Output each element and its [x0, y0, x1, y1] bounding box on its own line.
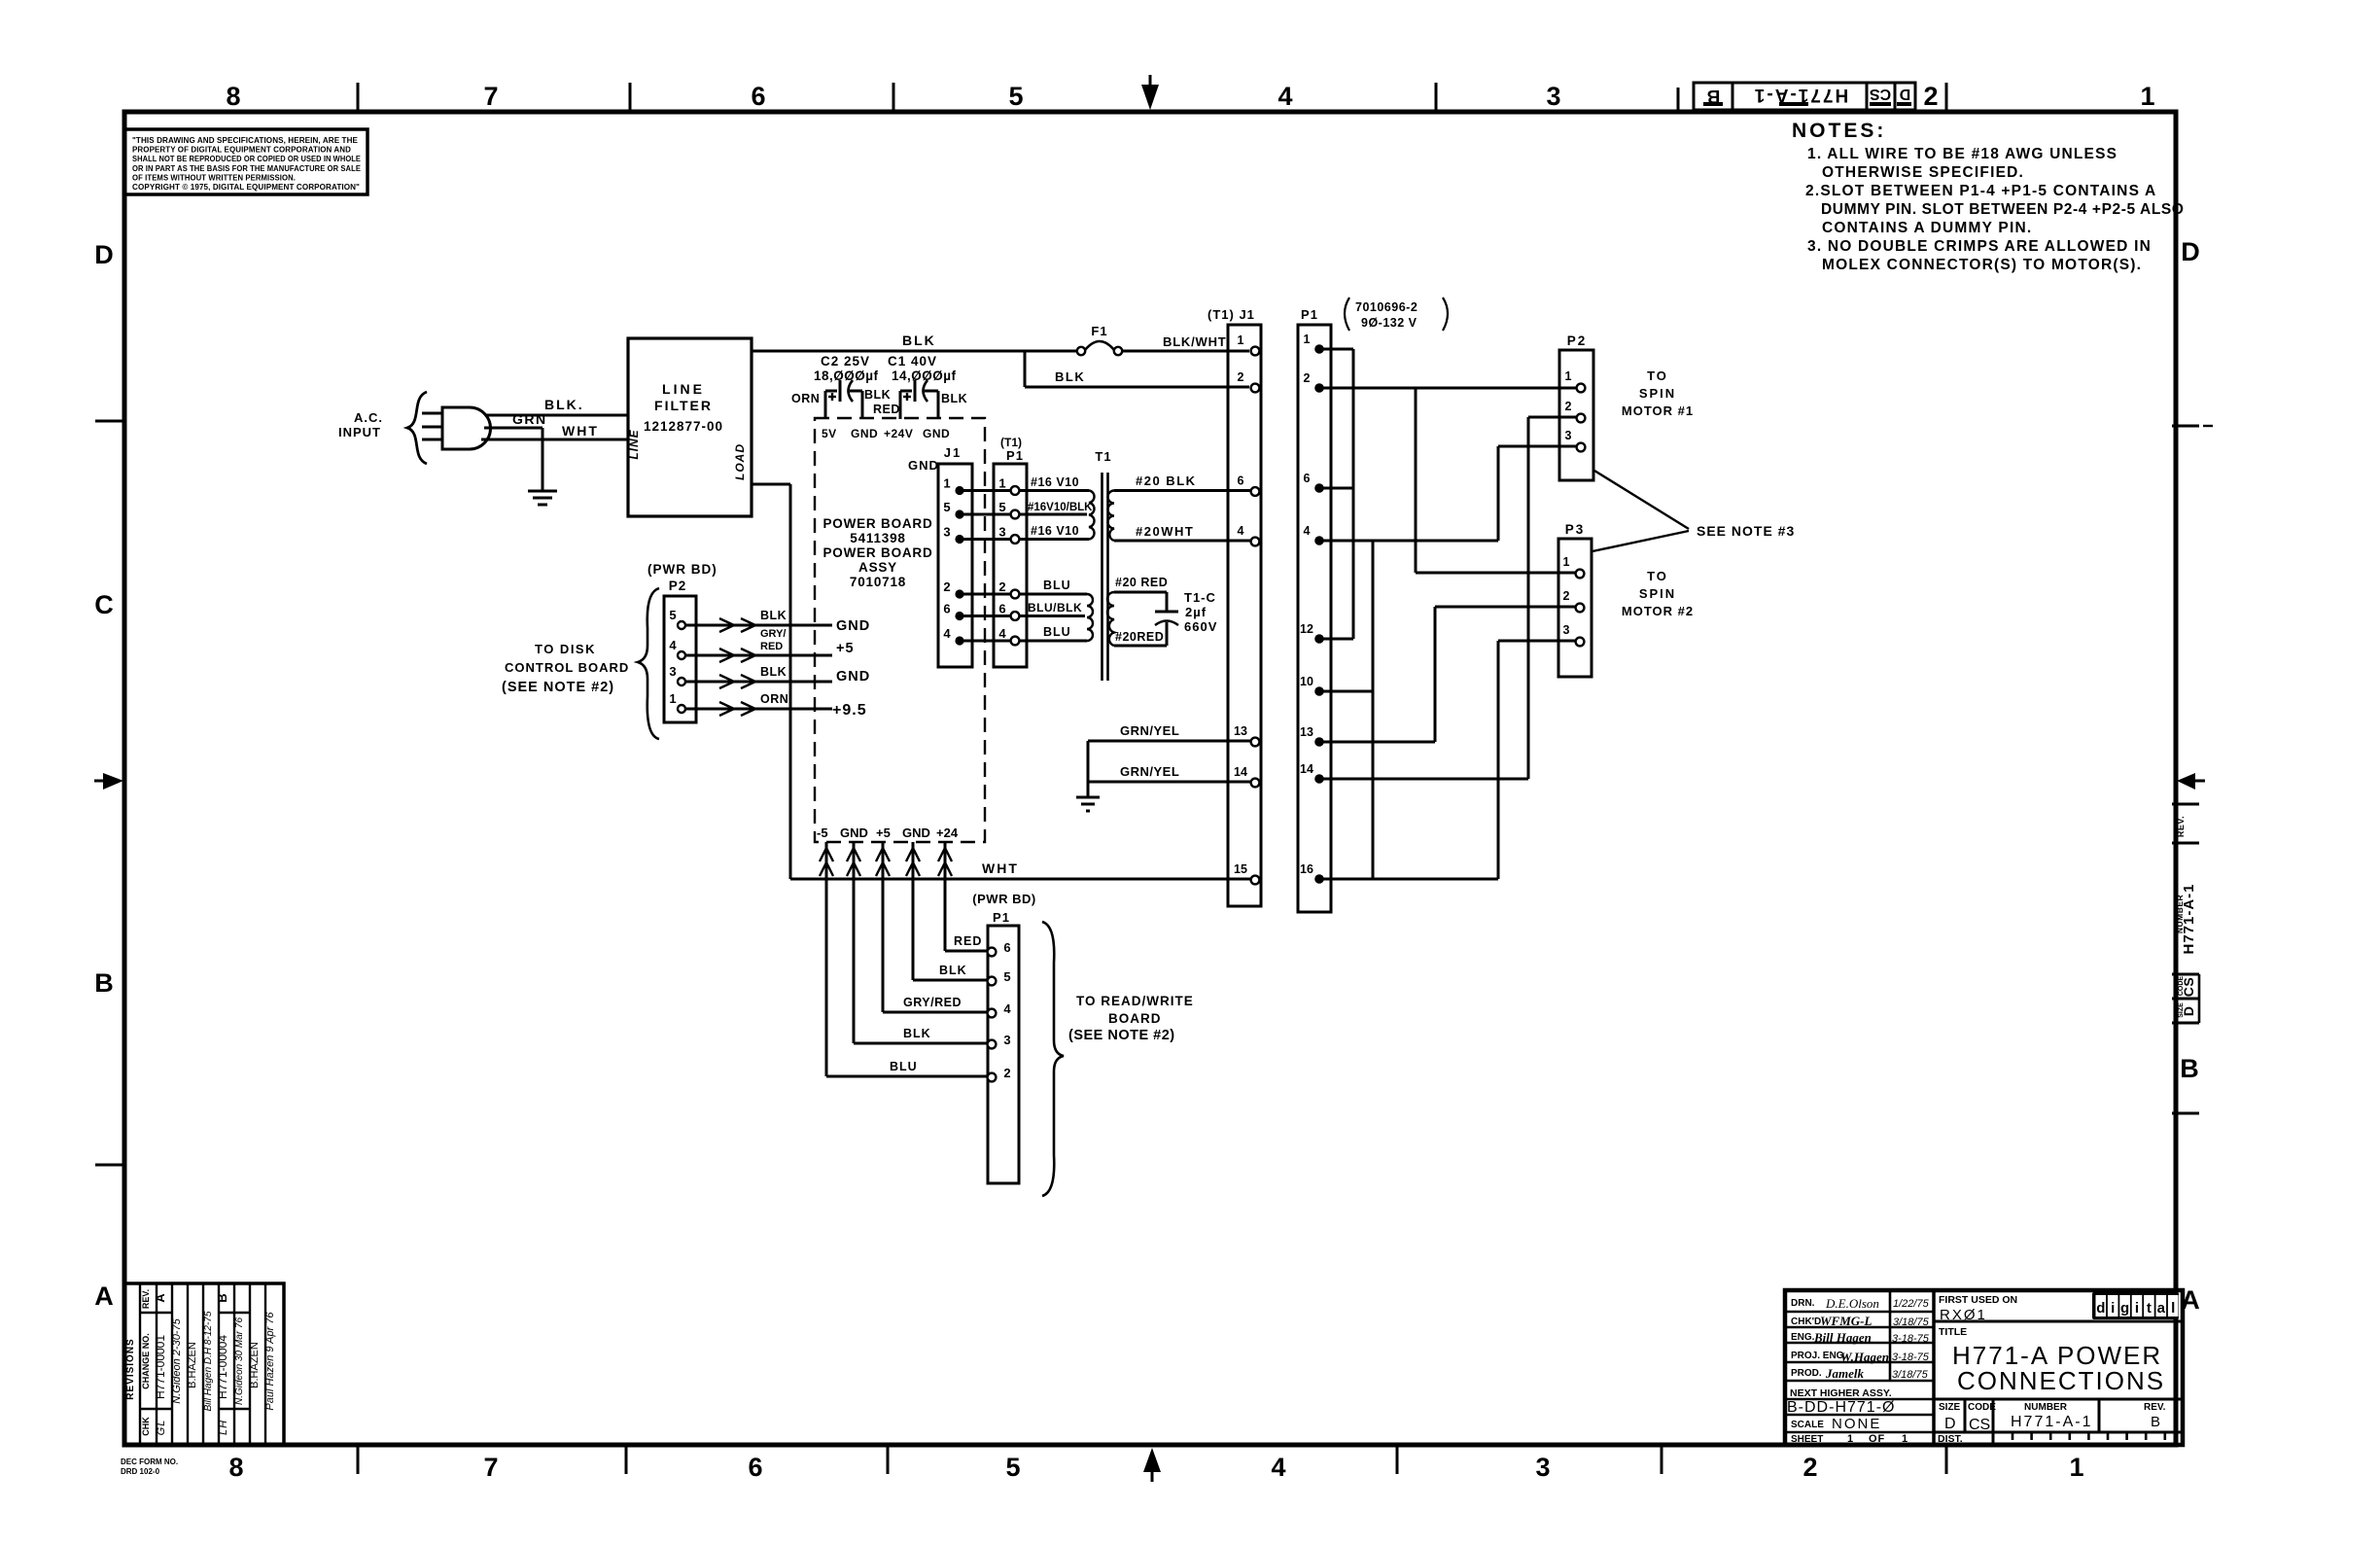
svg-text:3/18/75: 3/18/75 — [1893, 1317, 1930, 1328]
svg-text:3: 3 — [1565, 429, 1572, 442]
svg-text:3: 3 — [943, 525, 950, 540]
svg-text:P2: P2 — [1567, 334, 1588, 348]
svg-text:SPIN: SPIN — [1639, 586, 1676, 601]
svg-text:TITLE: TITLE — [1939, 1326, 1967, 1338]
svg-text:5: 5 — [1008, 82, 1023, 111]
svg-text:3. NO DOUBLE CRIMPS ARE ALLOWE: 3. NO DOUBLE CRIMPS ARE ALLOWED IN — [1807, 238, 2152, 255]
svg-text:LH: LH — [218, 1420, 229, 1435]
svg-text:BLK: BLK — [760, 665, 787, 679]
svg-text:TO: TO — [1647, 569, 1668, 583]
svg-text:14: 14 — [1234, 765, 1247, 779]
svg-text:BLK.: BLK. — [544, 397, 584, 412]
svg-text:CONTAINS A DUMMY PIN.: CONTAINS A DUMMY PIN. — [1822, 220, 2032, 236]
svg-text:4: 4 — [998, 626, 1006, 641]
svg-text:NONE: NONE — [1832, 1416, 1881, 1432]
svg-text:CODE: CODE — [1968, 1402, 1996, 1413]
svg-text:B: B — [2180, 1054, 2199, 1083]
svg-text:INPUT: INPUT — [338, 425, 381, 439]
svg-text:GRY/RED: GRY/RED — [903, 996, 962, 1009]
svg-text:3: 3 — [998, 525, 1005, 540]
svg-text:D.E.Olson: D.E.Olson — [1825, 1296, 1879, 1311]
svg-text:GND: GND — [923, 427, 950, 440]
svg-text:OF ITEMS WITHOUT WRITTEN PERMI: OF ITEMS WITHOUT WRITTEN PERMISSION. — [132, 173, 296, 182]
svg-text:+5: +5 — [836, 641, 855, 656]
svg-text:BLK: BLK — [939, 964, 967, 977]
svg-text:6: 6 — [943, 602, 950, 616]
svg-text:REV.: REV. — [2176, 816, 2186, 837]
svg-text:GRN/YEL: GRN/YEL — [1120, 764, 1179, 779]
svg-text:2: 2 — [1923, 82, 1938, 111]
svg-text:13: 13 — [1300, 725, 1313, 739]
svg-text:10: 10 — [1300, 675, 1313, 688]
svg-text:F1: F1 — [1091, 324, 1107, 338]
svg-text:(SEE NOTE #2): (SEE NOTE #2) — [502, 680, 614, 695]
svg-text:MOTOR #1: MOTOR #1 — [1622, 404, 1694, 418]
svg-text:7: 7 — [483, 82, 498, 111]
svg-text:DRD 102-0: DRD 102-0 — [121, 1467, 160, 1476]
svg-text:BLK: BLK — [1055, 369, 1085, 384]
svg-text:DEC FORM NO.: DEC FORM NO. — [121, 1457, 178, 1466]
svg-text:D: D — [1944, 1416, 1956, 1432]
svg-text:+24: +24 — [936, 825, 959, 840]
svg-text:LINE: LINE — [662, 381, 705, 397]
svg-text:SCALE: SCALE — [1791, 1420, 1824, 1430]
svg-text:3-18-75: 3-18-75 — [1892, 1333, 1930, 1345]
svg-text:6: 6 — [998, 602, 1005, 616]
svg-text:(SEE NOTE #2): (SEE NOTE #2) — [1068, 1028, 1175, 1043]
svg-text:ASSY: ASSY — [858, 560, 897, 575]
svg-text:RXØ1: RXØ1 — [1940, 1307, 1987, 1323]
svg-text:ORN: ORN — [760, 692, 788, 706]
svg-text:5: 5 — [998, 500, 1005, 514]
svg-text:#16 V10: #16 V10 — [1031, 475, 1079, 489]
svg-text:13: 13 — [1234, 724, 1247, 738]
svg-text:LOAD: LOAD — [733, 443, 747, 480]
svg-text:WFMG-L: WFMG-L — [1820, 1314, 1872, 1328]
svg-text:N.Gideon 30 Mar 76: N.Gideon 30 Mar 76 — [234, 1317, 245, 1405]
svg-text:C1 40V: C1 40V — [888, 354, 937, 369]
svg-text:TO DISK: TO DISK — [535, 642, 596, 656]
svg-text:#20WHT: #20WHT — [1136, 524, 1194, 539]
svg-text:P1: P1 — [1006, 448, 1024, 463]
svg-text:1: 1 — [2069, 1453, 2083, 1482]
svg-text:14: 14 — [1300, 762, 1313, 776]
svg-text:d: d — [2096, 1300, 2105, 1317]
svg-text:A: A — [94, 1282, 114, 1311]
svg-text:ORN: ORN — [791, 392, 820, 405]
svg-text:(PWR BD): (PWR BD) — [972, 892, 1035, 906]
svg-text:7010718: 7010718 — [850, 575, 906, 589]
svg-text:2µf: 2µf — [1185, 605, 1207, 619]
svg-text:16: 16 — [1300, 862, 1313, 876]
svg-text:P1: P1 — [1301, 307, 1318, 322]
svg-text:POWER BOARD: POWER BOARD — [822, 545, 932, 560]
svg-text:6: 6 — [748, 1453, 762, 1482]
svg-text:BLU: BLU — [1043, 625, 1071, 639]
svg-text:FIRST USED ON: FIRST USED ON — [1939, 1294, 2017, 1306]
svg-text:18,ØØØµf: 18,ØØØµf — [814, 369, 879, 383]
svg-text:3: 3 — [1003, 1033, 1010, 1047]
svg-text:CS: CS — [2181, 977, 2196, 997]
svg-text:5V: 5V — [822, 427, 837, 440]
svg-text:4: 4 — [1003, 1001, 1011, 1016]
svg-text:RED: RED — [873, 403, 900, 416]
svg-text:H771-00001: H771-00001 — [154, 1335, 167, 1399]
svg-text:2: 2 — [998, 579, 1005, 594]
svg-text:SHEET: SHEET — [1791, 1434, 1823, 1445]
svg-text:Bill Hagen: Bill Hagen — [1813, 1330, 1872, 1345]
svg-text:D: D — [2181, 1006, 2196, 1016]
svg-text:BLK: BLK — [941, 392, 967, 405]
svg-text:B: B — [94, 968, 114, 998]
svg-text:T1: T1 — [1095, 449, 1111, 464]
svg-text:BLU: BLU — [890, 1060, 918, 1073]
svg-text:3: 3 — [1535, 1453, 1550, 1482]
svg-text:5411398: 5411398 — [850, 531, 905, 545]
svg-text:1: 1 — [998, 476, 1005, 491]
svg-text:12: 12 — [1300, 622, 1313, 636]
svg-text:A.C.: A.C. — [354, 410, 383, 425]
svg-text:(PWR BD): (PWR BD) — [647, 562, 717, 577]
svg-text:REVISIONS: REVISIONS — [125, 1338, 136, 1399]
svg-text:GND: GND — [908, 458, 939, 473]
svg-text:J1: J1 — [944, 445, 962, 460]
svg-text:8: 8 — [226, 82, 240, 111]
svg-text:i: i — [2111, 1300, 2115, 1317]
svg-text:7: 7 — [483, 1453, 498, 1482]
svg-text:(T1) J1: (T1) J1 — [1207, 307, 1255, 322]
svg-text:PROJ. ENG.: PROJ. ENG. — [1791, 1351, 1846, 1361]
svg-text:NEXT HIGHER ASSY.: NEXT HIGHER ASSY. — [1790, 1387, 1892, 1399]
svg-text:WHT: WHT — [562, 423, 599, 439]
svg-text:(T1): (T1) — [1000, 436, 1022, 449]
svg-text:1212877-00: 1212877-00 — [644, 419, 723, 434]
svg-text:H771-00004: H771-00004 — [216, 1335, 229, 1399]
svg-text:GRN: GRN — [512, 411, 547, 427]
svg-text:2.SLOT BETWEEN P1-4 +P1-5 CONT: 2.SLOT BETWEEN P1-4 +P1-5 CONTAINS A — [1805, 183, 2156, 199]
svg-text:COPYRIGHT © 1975, DIGITAL EQUI: COPYRIGHT © 1975, DIGITAL EQUIPMENT CORP… — [132, 183, 360, 192]
svg-text:REV.: REV. — [2144, 1402, 2166, 1413]
svg-text:#16V10/BLK: #16V10/BLK — [1028, 502, 1093, 513]
svg-text:3: 3 — [1563, 623, 1570, 637]
svg-text:6: 6 — [1304, 472, 1311, 485]
svg-text:P2: P2 — [669, 579, 687, 593]
svg-text:4: 4 — [1304, 524, 1311, 538]
svg-text:H771-A-1: H771-A-1 — [1753, 85, 1848, 105]
svg-text:l: l — [2171, 1300, 2175, 1317]
svg-text:2: 2 — [1563, 589, 1570, 603]
svg-text:B-DD-H771-Ø: B-DD-H771-Ø — [1787, 1399, 1895, 1416]
svg-text:REV.: REV. — [141, 1289, 151, 1309]
svg-text:OR IN PART AS THE BASIS FOR TH: OR IN PART AS THE BASIS FOR THE MANUFACT… — [132, 164, 362, 173]
svg-text:3/18/75: 3/18/75 — [1892, 1369, 1929, 1381]
svg-text:#20RED: #20RED — [1115, 630, 1164, 644]
svg-text:1: 1 — [943, 476, 950, 491]
svg-text:CONNECTIONS: CONNECTIONS — [1957, 1366, 2165, 1395]
svg-text:3: 3 — [669, 664, 676, 679]
svg-text:B.HAZEN: B.HAZEN — [187, 1342, 198, 1388]
svg-text:SEE NOTE #3: SEE NOTE #3 — [1697, 523, 1795, 539]
svg-text:#20 RED: #20 RED — [1115, 576, 1168, 589]
svg-text:A: A — [153, 1293, 167, 1303]
svg-text:1: 1 — [2140, 82, 2154, 111]
svg-text:PROPERTY OF DIGITAL EQUIPMENT: PROPERTY OF DIGITAL EQUIPMENT CORPORATIO… — [132, 146, 351, 155]
svg-text:D: D — [2181, 237, 2200, 266]
svg-text:BOARD: BOARD — [1108, 1011, 1162, 1026]
svg-text:+9.5: +9.5 — [832, 702, 867, 719]
svg-text:+5: +5 — [876, 825, 891, 840]
svg-text:5: 5 — [1005, 1453, 1020, 1482]
svg-text:WHT: WHT — [982, 860, 1019, 876]
svg-text:NUMBER: NUMBER — [2024, 1402, 2068, 1413]
svg-text:-5: -5 — [817, 825, 828, 840]
svg-text:g: g — [2120, 1300, 2129, 1317]
svg-text:OF: OF — [1869, 1433, 1885, 1445]
svg-text:GRY/: GRY/ — [760, 628, 787, 640]
svg-text:BLK: BLK — [903, 1027, 931, 1040]
svg-text:N.Gideon 2-30-75: N.Gideon 2-30-75 — [171, 1317, 183, 1403]
svg-text:1: 1 — [1847, 1433, 1854, 1445]
svg-text:P3: P3 — [1565, 522, 1586, 537]
svg-text:TO: TO — [1647, 369, 1668, 383]
svg-text:POWER BOARD: POWER BOARD — [822, 516, 932, 531]
svg-text:4: 4 — [669, 638, 677, 652]
svg-text:2: 2 — [1003, 1066, 1010, 1080]
svg-text:2: 2 — [1238, 370, 1244, 384]
svg-text:660V: 660V — [1184, 619, 1217, 634]
svg-text:2: 2 — [1802, 1453, 1817, 1482]
svg-text:1: 1 — [1563, 555, 1570, 569]
svg-text:5: 5 — [669, 608, 676, 622]
svg-text:T1-C: T1-C — [1184, 590, 1216, 605]
svg-text:GND: GND — [851, 427, 878, 440]
svg-text:5: 5 — [1003, 969, 1010, 984]
svg-text:GND: GND — [840, 825, 868, 840]
svg-text:1: 1 — [1304, 333, 1311, 346]
svg-text:4: 4 — [943, 626, 951, 641]
svg-text:CHANGE NO.: CHANGE NO. — [141, 1333, 151, 1389]
svg-text:TO READ/WRITE: TO READ/WRITE — [1076, 994, 1194, 1008]
svg-text:BLK: BLK — [902, 333, 936, 348]
svg-text:BLU/BLK: BLU/BLK — [1028, 601, 1082, 614]
svg-text:SPIN: SPIN — [1639, 386, 1676, 401]
svg-text:4: 4 — [1238, 524, 1244, 538]
svg-text:RED: RED — [760, 641, 783, 652]
svg-text:3: 3 — [1546, 82, 1560, 111]
svg-text:NOTES:: NOTES: — [1792, 120, 1886, 142]
svg-text:BLU: BLU — [1043, 579, 1071, 592]
svg-text:GND: GND — [902, 825, 930, 840]
svg-text:CS: CS — [1969, 1417, 1990, 1433]
svg-text:#20 BLK: #20 BLK — [1136, 474, 1197, 488]
svg-text:4: 4 — [1271, 1453, 1285, 1482]
svg-text:SIZE: SIZE — [1939, 1402, 1961, 1413]
svg-text:6: 6 — [1003, 940, 1010, 955]
svg-text:PROD.: PROD. — [1791, 1368, 1822, 1379]
svg-text:CHK: CHK — [141, 1417, 151, 1436]
svg-text:"THIS DRAWING AND SPECIFICATIO: "THIS DRAWING AND SPECIFICATIONS, HEREIN… — [132, 136, 359, 145]
svg-text:RED: RED — [954, 934, 982, 948]
svg-text:GND: GND — [836, 669, 870, 685]
svg-text:D: D — [94, 240, 114, 269]
svg-text:14,ØØØµf: 14,ØØØµf — [892, 369, 957, 383]
svg-text:GRN/YEL: GRN/YEL — [1120, 723, 1179, 738]
svg-text:C: C — [94, 590, 114, 619]
svg-text:B: B — [215, 1293, 229, 1302]
svg-text:BLK/WHT: BLK/WHT — [1163, 334, 1227, 349]
svg-text:2: 2 — [1304, 371, 1311, 385]
svg-text:1: 1 — [1902, 1433, 1908, 1445]
svg-text:W.Hagen: W.Hagen — [1840, 1350, 1889, 1364]
svg-text:CS: CS — [1870, 86, 1892, 102]
svg-text:B: B — [2151, 1414, 2160, 1430]
svg-text:8: 8 — [228, 1453, 243, 1482]
svg-text:LINE: LINE — [627, 429, 641, 459]
svg-text:6: 6 — [751, 82, 765, 111]
svg-text:#16 V10: #16 V10 — [1031, 524, 1079, 538]
svg-text:GL: GL — [156, 1420, 167, 1436]
svg-text:BLK: BLK — [760, 609, 787, 622]
svg-text:CHK'D: CHK'D — [1791, 1317, 1821, 1327]
svg-text:CONTROL BOARD: CONTROL BOARD — [505, 660, 629, 675]
svg-text:C2 25V: C2 25V — [821, 354, 870, 369]
svg-text:MOLEX CONNECTOR(S) TO MOTOR(S): MOLEX CONNECTOR(S) TO MOTOR(S). — [1822, 257, 2142, 273]
svg-text:4: 4 — [1277, 82, 1292, 111]
svg-text:1/22/75: 1/22/75 — [1893, 1298, 1930, 1310]
svg-text:9Ø-132 V: 9Ø-132 V — [1361, 316, 1417, 330]
svg-text:SHALL NOT BE REPRODUCED OR COP: SHALL NOT BE REPRODUCED OR COPIED OR USE… — [132, 155, 362, 163]
svg-text:1: 1 — [1238, 334, 1244, 347]
svg-text:i: i — [2135, 1300, 2139, 1317]
svg-text:5: 5 — [943, 500, 950, 514]
svg-text:+24V: +24V — [884, 427, 913, 440]
svg-text:Paul Hazen 9 Apr 76: Paul Hazen 9 Apr 76 — [264, 1312, 276, 1411]
svg-text:1. ALL WIRE TO BE #18 AWG UNLE: 1. ALL WIRE TO BE #18 AWG UNLESS — [1807, 146, 2117, 162]
svg-text:P1: P1 — [993, 910, 1010, 925]
svg-text:BLK: BLK — [864, 388, 891, 402]
svg-text:H771-A-1: H771-A-1 — [2181, 883, 2197, 954]
svg-text:FILTER: FILTER — [654, 398, 713, 413]
svg-text:ENG.: ENG. — [1791, 1332, 1815, 1343]
svg-text:DRN.: DRN. — [1791, 1298, 1815, 1309]
svg-text:6: 6 — [1238, 474, 1244, 488]
svg-text:D: D — [1899, 86, 1911, 102]
svg-text:2: 2 — [1565, 400, 1572, 413]
svg-text:H771-A-1: H771-A-1 — [2011, 1414, 2092, 1430]
svg-text:1: 1 — [1565, 369, 1572, 383]
svg-text:7010696-2: 7010696-2 — [1355, 300, 1417, 314]
svg-text:2: 2 — [943, 579, 950, 594]
svg-text:OTHERWISE SPECIFIED.: OTHERWISE SPECIFIED. — [1822, 164, 2024, 181]
svg-text:Bill Hagen D.H 8-12-75: Bill Hagen D.H 8-12-75 — [203, 1311, 214, 1411]
svg-text:t: t — [2147, 1300, 2152, 1317]
svg-text:3-18-75: 3-18-75 — [1892, 1352, 1930, 1363]
svg-text:DUMMY PIN. SLOT BETWEEN P2-4 +: DUMMY PIN. SLOT BETWEEN P2-4 +P2-5 ALSO — [1821, 201, 2185, 218]
svg-text:DIST.: DIST. — [1938, 1433, 1963, 1445]
svg-text:15: 15 — [1234, 862, 1247, 876]
svg-text:GND: GND — [836, 618, 870, 634]
svg-text:B.HAZEN: B.HAZEN — [249, 1342, 261, 1388]
svg-text:a: a — [2157, 1300, 2166, 1317]
svg-text:Jamelk: Jamelk — [1825, 1366, 1864, 1381]
svg-text:1: 1 — [669, 691, 676, 706]
svg-text:MOTOR #2: MOTOR #2 — [1622, 604, 1694, 618]
